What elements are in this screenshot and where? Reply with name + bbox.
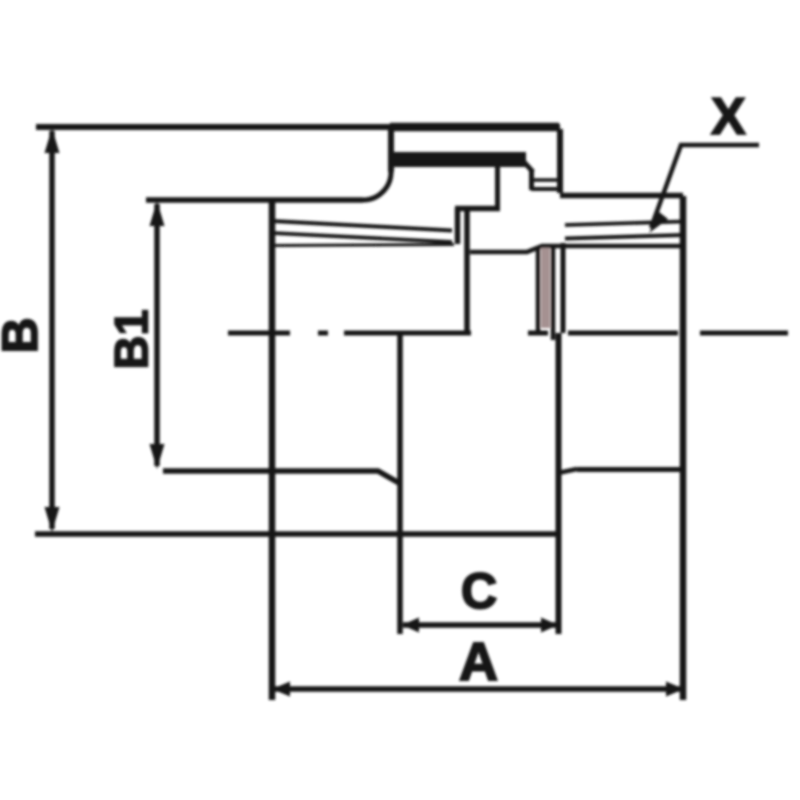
arrowhead B top [45,128,60,153]
arrowhead B bottom [45,507,60,532]
arrowhead C left [402,618,419,633]
label B1 [105,309,158,369]
arrowhead B1 top [150,201,165,226]
svg-text:C: C [461,563,497,619]
spigot left wall + C extension [397,333,403,634]
left socket bore line [272,245,454,246]
inner vertical 2 [551,245,556,340]
dimension B top reference line / cap top edge [36,124,560,130]
right body edge + A extension line [680,196,687,700]
fillet left hub to cap [363,172,391,200]
leader line X [651,145,759,228]
right hub bottom surface [577,467,683,472]
left socket thread crest line [272,221,452,231]
right hub top surface [560,193,683,199]
dimension B bottom reference line / spigot end face [35,531,559,537]
cap bottom flange band [391,152,526,167]
inner vertical 3 [561,243,566,333]
right bottom chamfer [558,469,577,473]
left hub top surface + B1 extension [146,197,363,203]
inner vertical 1 [536,246,541,331]
arrowhead B1 bottom [150,444,165,469]
left socket shoulder vertical [455,208,461,244]
label B [0,317,48,353]
arrowhead A left [272,682,290,697]
inner bore vertical left [464,207,470,333]
dimension line A [275,686,681,692]
left body edge + A extension line [269,198,276,700]
right hub bore line [470,246,683,252]
dimension line B [49,131,55,529]
gray thread relief band [541,248,550,328]
cap top edge (thicker overlay) [390,123,559,132]
arrowhead C right [541,618,558,633]
cap inner vertical [495,166,500,208]
cap right vertical [557,129,563,193]
cap inner bottom edge [455,206,500,212]
svg-text:A: A [459,632,498,692]
cap left vertical [388,129,394,172]
band step diagonal [524,162,533,172]
spigot right wall + C extension [556,333,562,634]
svg-text:X: X [711,88,746,146]
arrowhead A right [666,682,684,697]
svg-text:B1: B1 [105,309,158,369]
dimension line B1 [154,204,160,466]
left socket thread root line [272,233,452,242]
svg-text:B: B [0,317,48,353]
right hub thread root line [565,235,683,239]
notch thin line lower [531,187,561,191]
left hub bottom surface + B1 extension + spigot chamfer [163,471,399,483]
centerline dash-dot [228,331,788,336]
leader arrowhead X [649,212,668,233]
cap inner step vertical [529,170,534,190]
right hub thread crest line [565,222,683,226]
notch thin line upper [531,178,561,182]
dimension line C [403,622,557,628]
